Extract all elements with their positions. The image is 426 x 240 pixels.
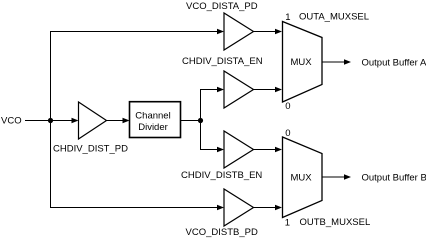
svg-text:OUTA_MUXSEL: OUTA_MUXSEL — [299, 12, 369, 23]
svg-text:MUX: MUX — [291, 173, 313, 184]
svg-text:0: 0 — [285, 128, 290, 139]
svg-text:Channel: Channel — [135, 111, 170, 122]
svg-text:CHDIV_DISTA_EN: CHDIV_DISTA_EN — [182, 56, 263, 67]
svg-text:CHDIV_DIST_PD: CHDIV_DIST_PD — [53, 144, 128, 155]
svg-text:CHDIV_DISTB_EN: CHDIV_DISTB_EN — [181, 170, 262, 181]
svg-text:1: 1 — [285, 218, 290, 229]
svg-text:VCO_DISTB_PD: VCO_DISTB_PD — [186, 227, 258, 238]
svg-text:1: 1 — [285, 12, 290, 23]
svg-text:OUTB_MUXSEL: OUTB_MUXSEL — [300, 217, 371, 228]
svg-text:Divider: Divider — [138, 122, 168, 133]
svg-text:Output Buffer B: Output Buffer B — [362, 173, 426, 184]
svg-text:Output Buffer A: Output Buffer A — [362, 58, 426, 69]
svg-text:VCO: VCO — [1, 116, 22, 127]
svg-text:MUX: MUX — [291, 57, 313, 68]
svg-text:0: 0 — [285, 101, 290, 112]
svg-text:VCO_DISTA_PD: VCO_DISTA_PD — [186, 1, 258, 12]
